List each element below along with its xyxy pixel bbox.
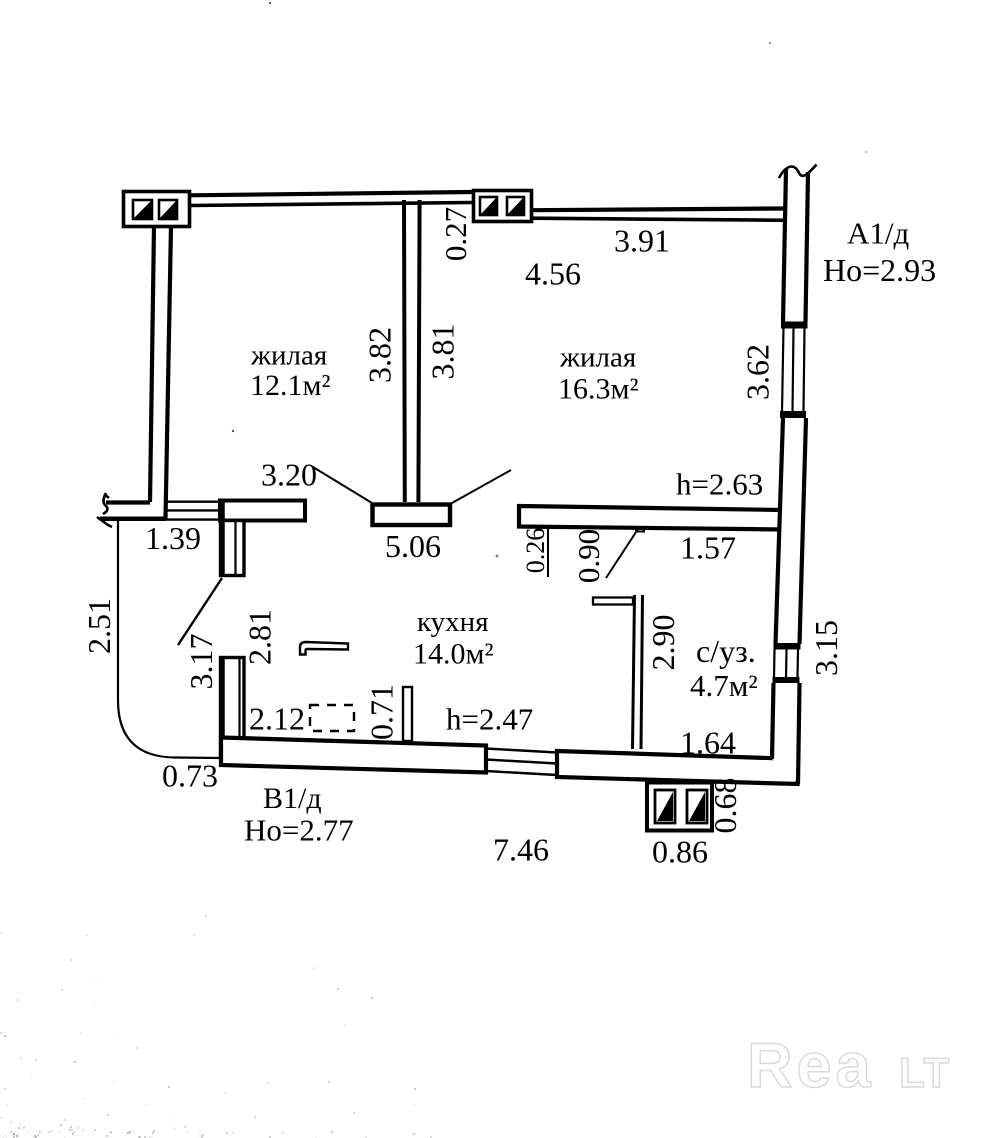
svg-text:Но=2.93: Но=2.93	[823, 252, 936, 288]
node black cap C	[774, 643, 801, 650]
node watermark Realt	[747, 1031, 951, 1101]
wire top wall A lower line	[190, 203, 472, 206]
svg-text:7.46: 7.46	[493, 832, 549, 868]
wire 0.26 extension line	[547, 528, 549, 577]
svg-text:14.0м²: 14.0м²	[413, 638, 493, 671]
node scan speck 4	[769, 42, 771, 44]
node wall break symbol top-right	[779, 165, 817, 179]
wall kitchen left vertical	[221, 657, 245, 758]
svg-text:16.3м²: 16.3м²	[558, 373, 638, 406]
window W2 top-middle box	[474, 191, 532, 222]
wire top wall B upper line	[533, 209, 786, 211]
node scan speck 1	[232, 430, 234, 432]
svg-text:LT: LT	[899, 1049, 951, 1096]
svg-text:0.71: 0.71	[364, 684, 400, 740]
svg-text:3.20: 3.20	[261, 457, 317, 493]
node stove dashed rectangle	[310, 705, 354, 731]
svg-text:Но=2.77: Но=2.77	[244, 813, 354, 848]
wall left exterior double line	[150, 226, 171, 519]
svg-text:3.15: 3.15	[808, 620, 844, 676]
svg-text:h=2.47: h=2.47	[446, 702, 533, 737]
wall right exterior upper segment	[783, 168, 808, 322]
svg-text:с/уз.: с/уз.	[696, 633, 756, 669]
svg-text:0.86: 0.86	[652, 834, 708, 870]
wire entry boundary thin line with corner arc	[118, 520, 220, 758]
wall entry jamb vertical stub	[221, 502, 245, 576]
svg-text:4.56: 4.56	[525, 256, 581, 292]
node door threshold 5.06	[373, 505, 451, 526]
svg-text:Rea: Rea	[747, 1031, 875, 1101]
window W3 bottom box 0.86	[647, 783, 712, 831]
wall divider rooms double line	[404, 200, 420, 502]
window 1.39 triple line	[165, 502, 221, 520]
svg-text:h=2.63: h=2.63	[676, 467, 763, 502]
svg-text:3.62: 3.62	[740, 344, 776, 400]
svg-text:В1/д: В1/д	[263, 782, 322, 815]
node scan speck 2	[496, 555, 499, 558]
svg-text:2.81: 2.81	[242, 609, 278, 665]
wire threshold pointer right	[452, 470, 511, 503]
wall middle-right bar h=2.63	[519, 506, 783, 530]
node black cap D	[773, 677, 800, 683]
wall kitchen bottom	[221, 738, 486, 773]
svg-text:3.17: 3.17	[183, 634, 219, 690]
svg-text:А1/д: А1/д	[847, 216, 910, 251]
wall right exterior middle segment	[776, 418, 807, 644]
svg-text:кухня: кухня	[417, 606, 489, 638]
svg-text:0.26: 0.26	[521, 528, 550, 574]
svg-text:12.1м²: 12.1м²	[250, 369, 330, 402]
node 0.90 jamb tick	[636, 526, 644, 532]
wire top wall B lower line	[533, 218, 786, 220]
svg-text:2.51: 2.51	[81, 598, 117, 654]
node kitchen counter symbol	[300, 642, 348, 655]
svg-text:3.81: 3.81	[425, 324, 461, 380]
node scan speck 5	[865, 151, 867, 153]
svg-text:0.68: 0.68	[707, 778, 743, 834]
wall bathroom left double line	[633, 595, 643, 749]
wall bathroom bottom	[557, 751, 798, 784]
svg-text:жилая: жилая	[250, 340, 327, 372]
svg-text:1.64: 1.64	[680, 725, 736, 761]
node scan speck 3	[269, 2, 271, 4]
svg-text:0.73: 0.73	[162, 758, 218, 794]
svg-text:1.39: 1.39	[145, 520, 201, 556]
window kitchen-bath triple line	[486, 749, 557, 776]
node partition stub 0.71	[403, 687, 412, 741]
svg-text:3.91: 3.91	[614, 223, 670, 259]
wire 0.90 pointer diagonal	[606, 529, 638, 578]
svg-text:0.90: 0.90	[571, 529, 606, 583]
svg-text:1.57: 1.57	[680, 530, 736, 566]
wall right exterior lower segment	[772, 683, 800, 784]
node scan noise bottom-left	[0, 915, 432, 1138]
wall stub left black bar with break	[97, 493, 166, 527]
wall entry jamb horizontal bar	[220, 501, 305, 521]
svg-text:жилая: жилая	[559, 342, 636, 374]
window 3.62 triple line	[782, 328, 805, 412]
door swing entry	[178, 578, 222, 645]
svg-text:3.82: 3.82	[362, 327, 398, 383]
node black cap A	[781, 322, 808, 329]
svg-text:4.7м²: 4.7м²	[690, 668, 758, 703]
svg-text:2.12: 2.12	[249, 701, 305, 737]
window 3.15 triple line	[774, 649, 798, 679]
wire top wall A upper line	[190, 192, 472, 195]
svg-text:2.90: 2.90	[645, 615, 681, 671]
svg-text:5.06: 5.06	[385, 528, 441, 564]
window W1 top-left box	[124, 192, 190, 227]
svg-text:0.27: 0.27	[438, 207, 473, 261]
node black cap B	[780, 411, 806, 418]
wire threshold pointer left	[313, 467, 372, 503]
wall bathroom door jamb stub	[593, 598, 633, 605]
